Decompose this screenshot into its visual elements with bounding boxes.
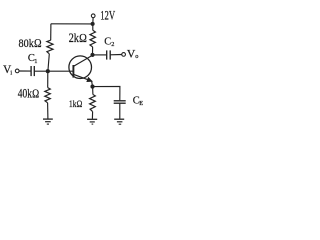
wire base row	[35, 70, 74, 72]
wire CE to ground	[119, 103, 121, 119]
svg-text:1kΩ: 1kΩ	[69, 99, 83, 110]
wire 2k to collector node	[92, 47, 94, 55]
transistor Q1 base bar	[72, 65, 74, 78]
wire C2 to output terminal	[110, 54, 121, 56]
svg-text:80kΩ: 80kΩ	[19, 36, 42, 50]
ground (40k)	[43, 119, 53, 124]
ground (CE)	[114, 119, 124, 124]
svg-text:2kΩ: 2kΩ	[69, 31, 87, 45]
wire emitter to CE	[93, 86, 120, 100]
transistor Q1 emitter lead	[73, 74, 92, 86]
wire 1k to ground	[91, 112, 93, 119]
terminal 12V open circle	[91, 14, 95, 18]
wire emitter drop	[92, 87, 94, 95]
svg-text:1: 1	[34, 58, 37, 65]
svg-text:12V: 12V	[100, 8, 116, 22]
transistor Q1 collector lead	[73, 55, 92, 66]
wire 12V stub	[92, 18, 94, 24]
wire 80k to base node	[48, 54, 49, 71]
wire output row	[93, 54, 107, 56]
node base junction	[46, 69, 50, 73]
svg-text:E: E	[139, 100, 143, 107]
node supply junction	[91, 22, 95, 26]
wire left branch upper	[50, 24, 52, 40]
svg-text:o: o	[135, 53, 138, 60]
svg-text:i: i	[10, 69, 12, 76]
svg-text:C: C	[104, 36, 111, 47]
resistor R3 2kΩ zigzag	[90, 30, 95, 47]
transistor Q1 circle	[69, 56, 92, 79]
svg-text:2: 2	[111, 41, 114, 48]
capacitor C2	[107, 50, 111, 59]
node emitter junction	[90, 85, 94, 89]
transistor Q1 emitter arrowhead	[87, 78, 92, 82]
terminal Vo open circle	[122, 53, 126, 57]
capacitor CE plates	[114, 101, 126, 103]
resistor R2 40kΩ zigzag	[45, 88, 51, 103]
svg-text:40kΩ: 40kΩ	[18, 86, 39, 100]
resistor R4 1kΩ zigzag	[90, 95, 96, 112]
terminal Vi open circle	[15, 69, 19, 73]
wire 40k upper	[47, 71, 49, 87]
wire 2k upper	[92, 24, 94, 30]
capacitor C1	[31, 66, 34, 76]
wire input row	[19, 70, 31, 72]
resistor R1 80kΩ zigzag	[47, 40, 53, 54]
ground (1k)	[87, 119, 97, 124]
node collector junction	[90, 53, 94, 57]
wire 40k to ground	[47, 103, 49, 119]
wire top rail	[51, 23, 93, 25]
